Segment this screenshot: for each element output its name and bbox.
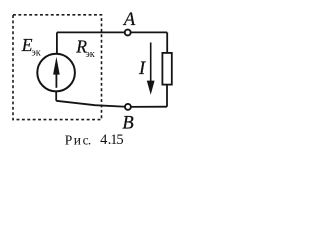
terminal node B: [125, 104, 131, 110]
wire: bottom horizontal from source to right branch through node B: [56, 101, 167, 107]
wire: right vertical from load resistor down to bottom corner: [166, 85, 168, 106]
current source E_эк (circle with upward arrow): [37, 54, 75, 92]
svg-text:Рис.: Рис.: [65, 132, 92, 147]
dashed box (boundary of equivalent source two-terminal network): [13, 15, 102, 120]
wire: left vertical from top corner down to source circle: [56, 32, 58, 53]
svg-text:I: I: [138, 59, 146, 79]
terminal node A: [125, 30, 131, 36]
svg-text:B: B: [122, 114, 133, 134]
current arrow I (pointing down): [147, 43, 155, 95]
svg-text:A: A: [122, 10, 136, 30]
wire: from source circle bottom down to bottom corner: [55, 92, 57, 101]
svg-text:эк: эк: [31, 47, 41, 58]
svg-text:4.15: 4.15: [100, 132, 124, 148]
resistor: load rectangle on right branch: [162, 53, 171, 85]
wire: top horizontal from source to right branch through node A: [57, 31, 167, 33]
svg-text:эк: эк: [85, 49, 95, 60]
wire: right vertical from top corner down to load resistor: [166, 32, 168, 52]
